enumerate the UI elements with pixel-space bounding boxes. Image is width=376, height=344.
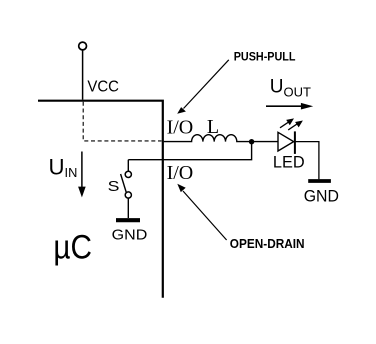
arrow U_OUT (output voltage, pointing right) xyxy=(266,103,313,110)
LED light emission arrow 2 xyxy=(288,121,303,130)
svg-text:PUSH-PULL: PUSH-PULL xyxy=(234,50,296,64)
wire: switch upper contact to lower I/O pin xyxy=(127,160,129,172)
switch S lower contact xyxy=(125,192,131,198)
junction node (inductor / LED / open-drain) xyxy=(249,139,254,144)
VCC supply terminal circle xyxy=(79,42,87,50)
svg-text:LED: LED xyxy=(273,154,305,172)
arrow annotation: OPEN-DRAIN to lower I/O pin xyxy=(177,184,226,240)
svg-text:L: L xyxy=(207,116,219,138)
LED D1 diode triangle (anode left) xyxy=(278,132,294,151)
ground symbol GND (switch branch) xyxy=(116,218,140,222)
wire: LED cathode right and down to ground xyxy=(295,142,319,180)
arrow U_IN (input voltage, pointing down) xyxy=(78,152,86,198)
LED cathode bar xyxy=(294,131,296,154)
LED light emission arrow 1 xyxy=(280,118,294,127)
wire: upper I/O pin through inductor L to LED anode xyxy=(164,135,278,142)
microcontroller U1 block outline (partial: top edge and right edge) xyxy=(38,100,164,298)
switch S lever (open) xyxy=(121,174,127,194)
svg-text:VCC: VCC xyxy=(87,79,119,96)
wire: VCC terminal down to block top edge xyxy=(82,50,84,100)
wire: switch lower contact to ground xyxy=(127,198,129,218)
ground symbol GND (LED branch) xyxy=(308,179,331,183)
svg-text:GND: GND xyxy=(304,186,339,205)
wire: lower I/O pin (open-drain) from switch to junction, riser to node xyxy=(128,142,251,160)
wire (dashed): internal connection VCC rail to push-pull I/O driver xyxy=(83,102,161,141)
svg-text:S: S xyxy=(108,178,120,195)
svg-text:µC: µC xyxy=(53,228,92,266)
svg-text:I/O: I/O xyxy=(167,162,194,184)
svg-text:OPEN-DRAIN: OPEN-DRAIN xyxy=(230,236,305,251)
switch S upper contact xyxy=(125,171,131,177)
svg-text:I/O: I/O xyxy=(167,116,194,138)
svg-text:GND: GND xyxy=(112,227,148,243)
arrow annotation: PUSH-PULL to upper I/O pin xyxy=(177,60,229,114)
